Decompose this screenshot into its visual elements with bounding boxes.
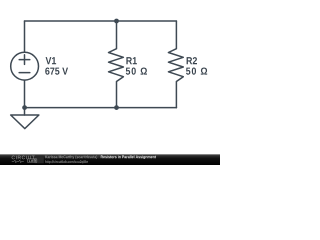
V1 minus sign (19, 72, 30, 74)
voltage source V1 circle (11, 52, 39, 80)
V1 plus sign (19, 55, 30, 65)
logo LAB box (28, 159, 37, 163)
node junction bottom left (22, 105, 27, 110)
label R2 value 50 ohm (186, 67, 207, 74)
label R2 (187, 57, 197, 64)
wire V1 bottom to ground (24, 80, 26, 115)
node junction bottom mid (114, 105, 119, 110)
wire left vertical top (24, 21, 26, 52)
footer attribution title (101, 155, 156, 159)
node junction top (114, 19, 119, 24)
logo wave (12, 160, 24, 163)
wire bottom horizontal (25, 107, 177, 109)
label R1 value 50 ohm (126, 67, 147, 74)
label V1 (46, 57, 57, 64)
resistor R2 zigzag (168, 21, 183, 108)
label 675 V (45, 67, 68, 74)
resistor R1 zigzag (109, 21, 124, 108)
logo text LAB (29, 160, 36, 162)
wire top horizontal (25, 20, 177, 22)
ground symbol triangle (11, 115, 39, 129)
footer attribution author (45, 155, 99, 159)
footer url (45, 160, 88, 164)
label R1 (126, 57, 137, 64)
logo text CIRCUIT (12, 156, 35, 160)
logo panel (34, 155, 43, 163)
footer bar (0, 154, 220, 165)
